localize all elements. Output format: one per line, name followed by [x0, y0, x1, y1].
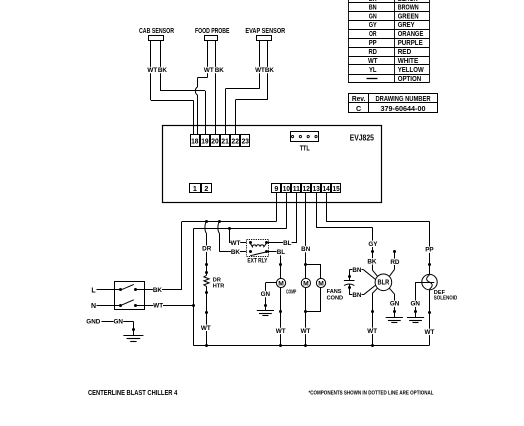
svg-text:WHITE: WHITE [398, 56, 419, 65]
svg-text:GREY: GREY [398, 20, 415, 29]
svg-text:WT: WT [231, 240, 241, 247]
svg-text:WT: WT [201, 325, 211, 332]
svg-text:RED: RED [398, 47, 412, 56]
svg-text:HTR: HTR [213, 283, 225, 289]
svg-text:M: M [303, 281, 309, 288]
svg-text:BL: BL [277, 249, 286, 256]
svg-text:1: 1 [193, 184, 197, 193]
svg-text:YL: YL [369, 65, 377, 74]
svg-text:*COMPONENTS SHOWN IN DOTTED LI: *COMPONENTS SHOWN IN DOTTED LINE ARE OPT… [309, 391, 435, 397]
svg-text:PP: PP [369, 38, 377, 47]
svg-text:N: N [91, 303, 96, 310]
svg-text:PURPLE: PURPLE [398, 38, 423, 47]
svg-text:EVJ825: EVJ825 [350, 134, 375, 143]
svg-text:COND: COND [327, 295, 343, 301]
svg-text:9: 9 [274, 184, 278, 193]
svg-text:379-60644-00: 379-60644-00 [381, 104, 426, 113]
svg-text:19: 19 [201, 137, 208, 146]
svg-text:TTL: TTL [300, 145, 311, 152]
svg-text:WT: WT [147, 67, 157, 74]
svg-text:14: 14 [323, 184, 330, 193]
svg-text:BN: BN [301, 246, 311, 253]
svg-text:BN: BN [352, 267, 362, 274]
svg-text:BK: BK [231, 249, 241, 256]
svg-text:BLR: BLR [378, 280, 390, 287]
svg-text:Rev.: Rev. [352, 94, 366, 103]
svg-text:13: 13 [313, 184, 320, 193]
svg-text:M: M [278, 281, 284, 288]
svg-text:FANS: FANS [327, 289, 342, 295]
svg-text:23: 23 [242, 137, 249, 146]
svg-text:C: C [356, 104, 361, 113]
svg-text:GN: GN [369, 11, 377, 20]
svg-text:ORANGE: ORANGE [398, 29, 424, 38]
svg-text:WT: WT [301, 328, 311, 335]
svg-text:BROWN: BROWN [398, 2, 419, 11]
svg-text:WT: WT [204, 67, 214, 74]
svg-text:BN: BN [369, 2, 377, 11]
svg-text:BN: BN [352, 292, 362, 299]
svg-text:PP: PP [425, 247, 433, 254]
svg-text:GY: GY [368, 241, 378, 248]
svg-text:DRAWING NUMBER: DRAWING NUMBER [376, 94, 432, 103]
svg-text:GN: GN [261, 291, 271, 298]
svg-text:GY: GY [369, 20, 377, 29]
svg-text:RD: RD [390, 259, 400, 266]
svg-text:WT: WT [276, 328, 286, 335]
svg-text:GN: GN [113, 319, 123, 326]
svg-text:BK: BK [265, 67, 275, 74]
svg-text:WT: WT [368, 56, 378, 65]
svg-text:BK: BK [215, 67, 225, 74]
svg-text:COMP: COMP [286, 290, 296, 296]
svg-text:OPTION: OPTION [398, 74, 422, 83]
svg-text:21: 21 [221, 137, 229, 146]
svg-text:GN: GN [390, 301, 400, 308]
svg-text:2: 2 [204, 184, 208, 193]
svg-text:12: 12 [303, 184, 310, 193]
svg-text:L: L [91, 287, 96, 294]
svg-text:SOLENOID: SOLENOID [434, 295, 458, 301]
svg-text:GN: GN [410, 301, 420, 308]
svg-text:M: M [318, 281, 324, 288]
svg-text:CENTERLINE BLAST CHILLER 4: CENTERLINE BLAST CHILLER 4 [88, 388, 178, 397]
svg-text:15: 15 [333, 184, 340, 193]
svg-text:BL: BL [283, 240, 292, 247]
svg-text:FOOD PROBE: FOOD PROBE [195, 26, 230, 35]
svg-text:CAB SENSOR: CAB SENSOR [139, 26, 175, 35]
svg-text:BK: BK [158, 67, 168, 74]
svg-text:EXT RLY: EXT RLY [247, 259, 267, 265]
svg-text:WT: WT [425, 329, 435, 336]
svg-text:EVAP SENSOR: EVAP SENSOR [245, 26, 285, 35]
svg-text:WT: WT [153, 303, 163, 310]
svg-text:YELLOW: YELLOW [398, 65, 424, 74]
svg-text:DR: DR [202, 246, 212, 253]
svg-text:RD: RD [368, 47, 377, 56]
svg-text:BK: BK [153, 287, 163, 294]
svg-text:BK: BK [367, 258, 377, 265]
svg-text:18: 18 [191, 137, 198, 146]
svg-text:OR: OR [369, 29, 377, 38]
svg-text:GREEN: GREEN [398, 11, 419, 20]
svg-text:WT: WT [367, 328, 377, 335]
svg-text:10: 10 [283, 184, 290, 193]
svg-text:11: 11 [293, 184, 300, 193]
svg-text:22: 22 [232, 137, 239, 146]
svg-text:20: 20 [211, 137, 218, 146]
svg-text:WT: WT [255, 67, 265, 74]
svg-text:GND: GND [86, 319, 100, 326]
